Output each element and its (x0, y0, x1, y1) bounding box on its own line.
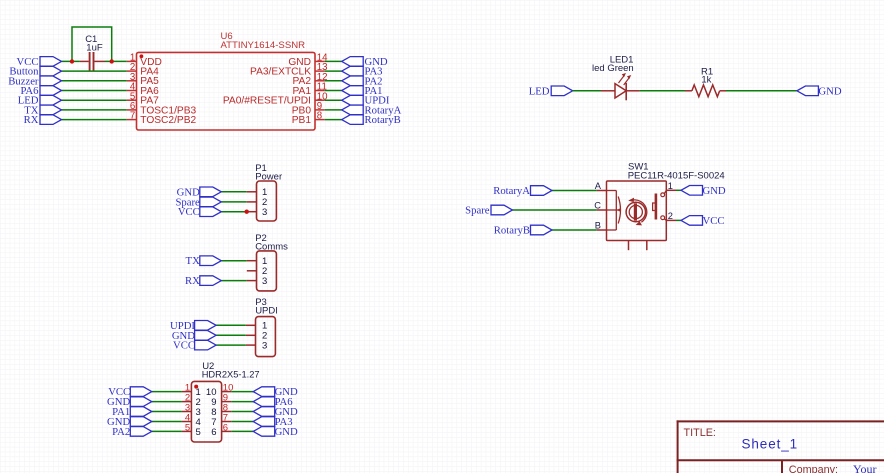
port label PA3 U2 right (275, 416, 293, 428)
inner pin label 9 U2 (211, 397, 216, 408)
wire RotaryB to SW1 B (552, 229, 597, 231)
port GND (U2 right) (253, 427, 275, 437)
pin number 3 P2 (262, 276, 267, 287)
label P2 reference (255, 233, 267, 244)
pin C stub SW1 (597, 209, 607, 211)
port VCC (left) (40, 57, 62, 67)
wire Button net to U6 pin 2 (62, 70, 127, 72)
port label TX P2 (186, 255, 201, 267)
svg-text:LED: LED (529, 85, 550, 97)
pin number 6 U6 (130, 101, 135, 112)
svg-text:VCC: VCC (703, 215, 725, 227)
svg-text:VCC: VCC (178, 206, 200, 218)
capacitor C1 left lead (80, 60, 89, 62)
port label Spare (465, 205, 490, 217)
pin name VDD U6 (140, 57, 162, 68)
connector P1 body (257, 181, 277, 221)
port RotaryB (right of U6) (342, 115, 364, 125)
inner pin label 1 U2 (196, 387, 201, 398)
pin number 2 SW1 (668, 211, 673, 221)
label LED1 value led Green (592, 63, 634, 74)
title block sheet name Sheet_1 (742, 437, 799, 452)
label SW1 value PEC11R-4015F-S0024 (628, 171, 725, 182)
pin 9 stub U2 (222, 401, 232, 403)
port label PA3 right (365, 66, 383, 78)
port RotaryA (SW1) (531, 186, 553, 196)
label C1 value 1uF (86, 42, 103, 53)
port GND (U2 right) (253, 387, 275, 397)
port VCC (P1) (200, 207, 222, 217)
pin number 7 U2 (223, 412, 228, 423)
pin number 8 U2 (223, 402, 228, 413)
port label UPDI right (365, 95, 390, 107)
pin 1 stub SW1 (666, 189, 676, 191)
pin name GND U6 (288, 57, 311, 68)
port GND (P1) (200, 187, 222, 197)
svg-text:8: 8 (317, 111, 322, 122)
svg-text:1: 1 (668, 181, 673, 191)
label P1 value Power (255, 172, 282, 183)
pin number 1 U2 (185, 383, 190, 394)
port label GND P3 (172, 330, 195, 342)
pin 3 stub U6 (127, 80, 137, 82)
resistor R1 zigzag (692, 85, 720, 97)
svg-text:Spare: Spare (465, 205, 490, 217)
svg-text:GND: GND (818, 85, 841, 97)
port label Spare P1 (175, 196, 200, 208)
wire RX net to U6 pin 7 (62, 119, 127, 121)
port label RotaryA SW1 (493, 185, 530, 197)
pin number 2 P3 (262, 331, 267, 342)
pin number 2 U2 (185, 393, 190, 404)
pin 2 stub SW1 (666, 219, 676, 221)
pin number 6 U2 (223, 422, 228, 433)
svg-text:5: 5 (196, 427, 201, 438)
SW1 wiper arc (618, 197, 621, 224)
wire PA1 to U2 pin 3 (152, 411, 182, 413)
wire LED1 cathode to R1 (640, 90, 685, 92)
pin A stub SW1 (597, 190, 607, 192)
port Spare (P1) (200, 197, 222, 207)
port label RX P2 (185, 275, 200, 287)
pin B stub SW1 (597, 229, 607, 231)
label P3 reference (255, 297, 267, 308)
wire TX net to U6 pin 6 (62, 109, 127, 111)
port TX (P2) (200, 256, 222, 266)
port GND (U2 right) (253, 407, 275, 417)
wire LED net to LED1 anode (573, 90, 601, 92)
switch SW1 body (607, 181, 667, 241)
port label RX (24, 114, 39, 126)
pin-1 marker dot U6 (140, 54, 144, 58)
svg-text:B: B (595, 221, 601, 231)
pin name PA2 U6 (293, 76, 312, 87)
wire GND to P1 pin 1 (221, 191, 247, 193)
svg-text:led Green: led Green (592, 63, 634, 74)
port label VCC (17, 56, 39, 68)
port label VCC SW1 (703, 215, 725, 227)
port UPDI (P3) (195, 321, 217, 331)
svg-text:HDR2X5-1.27: HDR2X5-1.27 (202, 370, 260, 380)
wire Spare to SW1 C (513, 209, 597, 211)
pin number 9 U2 (223, 393, 228, 404)
pin number 5 U6 (130, 91, 135, 102)
port VCC (SW1) (681, 216, 703, 226)
pin 10 stub U2 (222, 391, 232, 393)
svg-text:Company:: Company: (789, 464, 838, 473)
port label LED (18, 95, 39, 107)
svg-text:1k: 1k (701, 75, 711, 86)
pin 14 stub U6 (315, 60, 325, 62)
svg-text:PEC11R-4015F-S0024: PEC11R-4015F-S0024 (628, 171, 725, 182)
pin number 11 U6 (317, 82, 327, 93)
pin 10 stub U6 (315, 99, 325, 101)
svg-text:PA2: PA2 (112, 426, 130, 438)
port VCC (P3) (195, 340, 217, 350)
port LED (left) (40, 95, 62, 105)
pin number 3 U2 (185, 402, 190, 413)
port label Buzzer (8, 75, 39, 87)
wire GND from U2 pin 8 (231, 411, 253, 413)
title block Company: label (789, 464, 838, 473)
pin name PB1 U6 (292, 115, 312, 126)
SW1 rotation arrow (628, 198, 647, 226)
svg-text:TOSC2/PB2: TOSC2/PB2 (140, 115, 196, 126)
pin number 7 U6 (130, 111, 135, 122)
label C1 reference (85, 34, 97, 45)
pin 2 stub U2 (182, 401, 192, 403)
title block company value Your (853, 462, 876, 473)
inner pin label 5 U2 (196, 427, 201, 438)
SW1 internal contact lines (607, 191, 619, 231)
svg-text:RX: RX (24, 114, 39, 126)
port label PA6 U2 right (275, 396, 294, 408)
port UPDI (right of U6) (342, 95, 364, 105)
wire GND from U2 pin 6 (231, 430, 253, 432)
wire SW1 pin2 to VCC port (676, 219, 681, 221)
pin 7 stub U6 (127, 119, 137, 121)
pin 8 stub U2 (222, 411, 232, 413)
svg-text:GND: GND (275, 426, 298, 438)
pin name PA5 U6 (140, 76, 159, 87)
pin name C SW1 (594, 201, 601, 211)
port RX (P2) (200, 276, 222, 286)
pin name PA6 U6 (140, 86, 159, 97)
svg-text:A: A (595, 181, 602, 191)
inner pin label 3 U2 (196, 407, 201, 418)
port label LED (529, 85, 550, 97)
pin 6 stub U6 (127, 109, 137, 111)
wire UPDI net from U6 pin 10 (325, 99, 342, 101)
wire GND to U2 pin 2 (152, 401, 182, 403)
junction dot P1 pin 3 (245, 210, 249, 214)
pin 1 stub P3 (246, 324, 256, 326)
port label GND U2 right (275, 386, 298, 398)
port PA1 (U2 left) (130, 407, 152, 417)
wire SW1 pin1 to GND port (676, 189, 681, 191)
port label GND P1 (177, 186, 200, 198)
port VCC (U2 left) (130, 387, 152, 397)
svg-text:TITLE:: TITLE: (684, 427, 716, 439)
wire PA1 net from U6 pin 11 (325, 90, 342, 92)
wire VCC net to C1 (62, 60, 80, 62)
pin 2 stub U6 (127, 70, 137, 72)
wire VCC to P1 pin 3 (221, 211, 247, 213)
pin 2 stub P1 (247, 201, 257, 203)
port GND (U2 left) (130, 417, 152, 427)
pin name PA7 U6 (140, 96, 159, 107)
pin name PA1 U6 (293, 86, 312, 97)
pin number 3 P1 (262, 207, 267, 218)
pin 3 stub U2 (182, 411, 192, 413)
svg-text:TX: TX (186, 255, 201, 267)
port RotaryA (right of U6) (342, 105, 364, 115)
svg-text:3: 3 (262, 276, 267, 287)
label P3 value UPDI (255, 306, 278, 317)
port TX (left) (40, 105, 62, 115)
port GND (SW1) (681, 186, 703, 196)
port RotaryB (SW1) (531, 225, 553, 235)
svg-text:7: 7 (130, 111, 135, 122)
port PA1 (right of U6) (342, 86, 364, 96)
LED1 anode lead (601, 90, 615, 92)
wire RotaryA to SW1 A (552, 190, 597, 192)
pin number 4 U6 (130, 82, 136, 93)
pin number 2 P1 (262, 197, 267, 208)
label U2 reference (202, 361, 214, 372)
svg-text:RotaryB: RotaryB (365, 114, 401, 126)
wire TX to P2 pin 1 (221, 260, 247, 262)
capacitor C1 right lead (94, 60, 105, 62)
resistor R1 left lead (685, 90, 692, 92)
port label PA1 U2 left (112, 406, 130, 418)
wire Buzzer net to U6 pin 3 (62, 80, 127, 82)
wire RX to P2 pin 3 (221, 280, 247, 282)
inner pin label 2 U2 (196, 397, 201, 408)
svg-text:1uF: 1uF (86, 42, 103, 53)
svg-text:6: 6 (223, 422, 228, 433)
wire PA6 net to U6 pin 4 (62, 90, 127, 92)
pin 1 stub P1 (247, 191, 257, 193)
wire VCC to U2 pin 1 (152, 391, 182, 393)
wire Spare to P1 pin 2 (221, 201, 247, 203)
port PA6 (left) (40, 86, 62, 96)
wire GND net from U6 pin 14 (325, 60, 342, 62)
pin-1 marker dot U2 (194, 385, 198, 389)
wire GND to U2 pin 4 (152, 421, 182, 423)
pin number 13 U6 (317, 62, 328, 73)
label U2 value HDR2X5-1.27 (202, 370, 260, 380)
pin number 5 U2 (185, 422, 190, 433)
pin 8 stub U6 (315, 119, 325, 121)
wire UPDI to P3 pin 1 (216, 324, 246, 326)
port Buzzer (left) (40, 76, 62, 86)
label LED1 reference (610, 55, 634, 66)
port GND (led circuit) (797, 86, 819, 96)
svg-text:Sheet_1: Sheet_1 (742, 437, 799, 452)
capacitor C1 plates (90, 52, 94, 71)
pin 3 stub P1 (247, 211, 257, 213)
wire R1 to GND port (726, 90, 797, 92)
label R1 reference (701, 67, 713, 78)
LED1 emission arrows (619, 73, 632, 85)
pin number 1 SW1 (668, 181, 673, 191)
SW1 push switch bar and bracket (653, 194, 656, 220)
wire RotaryB net from U6 pin 8 (325, 119, 342, 121)
port label GND U2 left (107, 416, 130, 428)
wire VCC to P3 pin 3 (216, 344, 246, 346)
port label Button (9, 66, 39, 78)
wire RotaryA net from U6 pin 9 (325, 109, 342, 111)
junction dot VCC right of C1 (110, 59, 114, 63)
port label VCC P1 (178, 206, 200, 218)
wire PA3 from U2 pin 7 (231, 421, 253, 423)
port GND (U2 left) (130, 397, 152, 407)
wire C1 to U6 VDD pin (105, 60, 127, 62)
port label GND led circuit (818, 85, 841, 97)
pin 4 stub U2 (182, 421, 192, 423)
port RX (left) (40, 115, 62, 125)
port label RotaryB right (365, 114, 401, 126)
pin number 1 P3 (262, 321, 267, 332)
pin number 14 U6 (317, 53, 328, 64)
SW1 rotor circle with slot (626, 202, 645, 221)
pin 13 stub U6 (315, 70, 325, 72)
port label PA6 (20, 85, 39, 97)
port label PA1 right (365, 85, 383, 97)
port label UPDI P3 (170, 320, 195, 332)
svg-text:C: C (594, 201, 601, 211)
svg-text:2: 2 (668, 211, 673, 221)
title block TITLE: label (684, 427, 716, 439)
wire LED net to U6 pin 5 (62, 99, 127, 101)
pin name TOSC1/PB3 U6 (140, 105, 196, 116)
label SW1 reference (628, 162, 649, 173)
port LED (led circuit) (551, 86, 573, 96)
inner pin label 10 U2 (206, 387, 217, 398)
port GND (right of U6) (342, 57, 364, 67)
pin 2 stub P3 (246, 334, 256, 336)
wire PA3 net from U6 pin 13 (325, 70, 342, 72)
port label RotaryB SW1 (494, 225, 530, 237)
pin number 3 P3 (262, 340, 267, 351)
svg-text:PB1: PB1 (292, 115, 312, 126)
wire PA2 net from U6 pin 12 (325, 80, 342, 82)
pin number 10 U2 (223, 383, 234, 394)
connector P3 body (256, 317, 276, 357)
port label GND right (365, 56, 388, 68)
port label GND U2 right (275, 406, 298, 418)
pin 1 stub U2 (182, 391, 192, 393)
title block frame lines (677, 420, 884, 473)
wire GND from U2 pin 10 (231, 391, 253, 393)
pin 6 stub U2 (222, 430, 232, 432)
IC U6 ATTINY1614-SSNR body (137, 52, 316, 130)
inner pin label 8 U2 (211, 407, 216, 418)
port label GND U2 right (275, 426, 298, 438)
port label RotaryA right (365, 104, 402, 116)
junction dot VCC left of C1 (70, 59, 74, 63)
pin 3 stub P3 (246, 344, 256, 346)
port PA6 (U2 right) (253, 397, 275, 407)
port PA2 (right of U6) (342, 76, 364, 86)
port PA2 (U2 left) (130, 427, 152, 437)
port label PA2 right (365, 75, 383, 87)
pin number 8 U6 (317, 111, 322, 122)
pin 5 stub U6 (127, 99, 137, 101)
svg-text:3: 3 (262, 207, 267, 218)
pin 2 stub P2 (247, 270, 257, 272)
pin 1 stub U6 (127, 60, 137, 62)
wire VCC loop over C1 (72, 27, 112, 61)
LED LED1 triangle and cathode bar (615, 83, 626, 100)
svg-text:UPDI: UPDI (255, 306, 278, 317)
port label GND SW1 (703, 185, 726, 197)
port PA3 (right of U6) (342, 66, 364, 76)
pin number 1 P2 (262, 256, 267, 267)
svg-text:RotaryB: RotaryB (494, 225, 530, 237)
port Button (left) (40, 66, 62, 76)
pin number 12 U6 (317, 72, 328, 83)
svg-text:5: 5 (185, 422, 190, 433)
pin 9 stub U6 (315, 109, 325, 111)
resistor R1 right lead (720, 90, 726, 92)
wire PA6 from U2 pin 9 (231, 401, 253, 403)
pin name PA3/EXTCLK U6 (250, 67, 311, 78)
pin 11 stub U6 (315, 90, 325, 92)
pin number 2 P2 (262, 266, 267, 277)
LED1 cathode lead (626, 90, 639, 92)
label P2 value Comms (255, 241, 288, 252)
label U6 value ATTINY1614-SSNR (221, 40, 306, 51)
svg-text:VCC: VCC (173, 340, 195, 352)
svg-text:6: 6 (211, 427, 216, 438)
pin 7 stub U2 (222, 421, 232, 423)
port label GND U2 left (107, 396, 130, 408)
port Spare (SW1) (491, 205, 513, 215)
connector U2 body (191, 381, 221, 442)
pin number 3 U6 (130, 72, 135, 83)
inner pin label 4 U2 (196, 417, 201, 428)
SW1 mounting stubs (629, 241, 647, 251)
pin 5 stub U2 (182, 430, 192, 432)
pin name TOSC2/PB2 U6 (140, 115, 196, 126)
pin number 2 U6 (130, 62, 135, 73)
pin number 1 U6 (130, 53, 135, 64)
pin number 10 U6 (317, 91, 328, 102)
pin number 4 U2 (185, 412, 190, 423)
pin 4 stub U6 (127, 90, 137, 92)
pin name PB0 U6 (292, 105, 312, 116)
label R1 value 1k (701, 75, 711, 86)
port GND (P3) (195, 331, 217, 341)
svg-text:RX: RX (185, 275, 200, 287)
label U6 reference (221, 31, 233, 42)
port PA3 (U2 right) (253, 417, 275, 427)
inner pin label 6 U2 (211, 427, 216, 438)
pin 3 stub P2 (247, 280, 257, 282)
SW1 switch contacts (661, 190, 667, 220)
wire PA2 to U2 pin 5 (152, 430, 182, 432)
pin 12 stub U6 (315, 80, 325, 82)
port label TX (24, 104, 39, 116)
port label VCC U2 left (108, 386, 130, 398)
pin number 9 U6 (317, 101, 322, 112)
pin name B SW1 (595, 221, 601, 231)
pin name A SW1 (595, 181, 602, 191)
label P1 reference (255, 163, 267, 174)
inner pin label 7 U2 (211, 417, 216, 428)
